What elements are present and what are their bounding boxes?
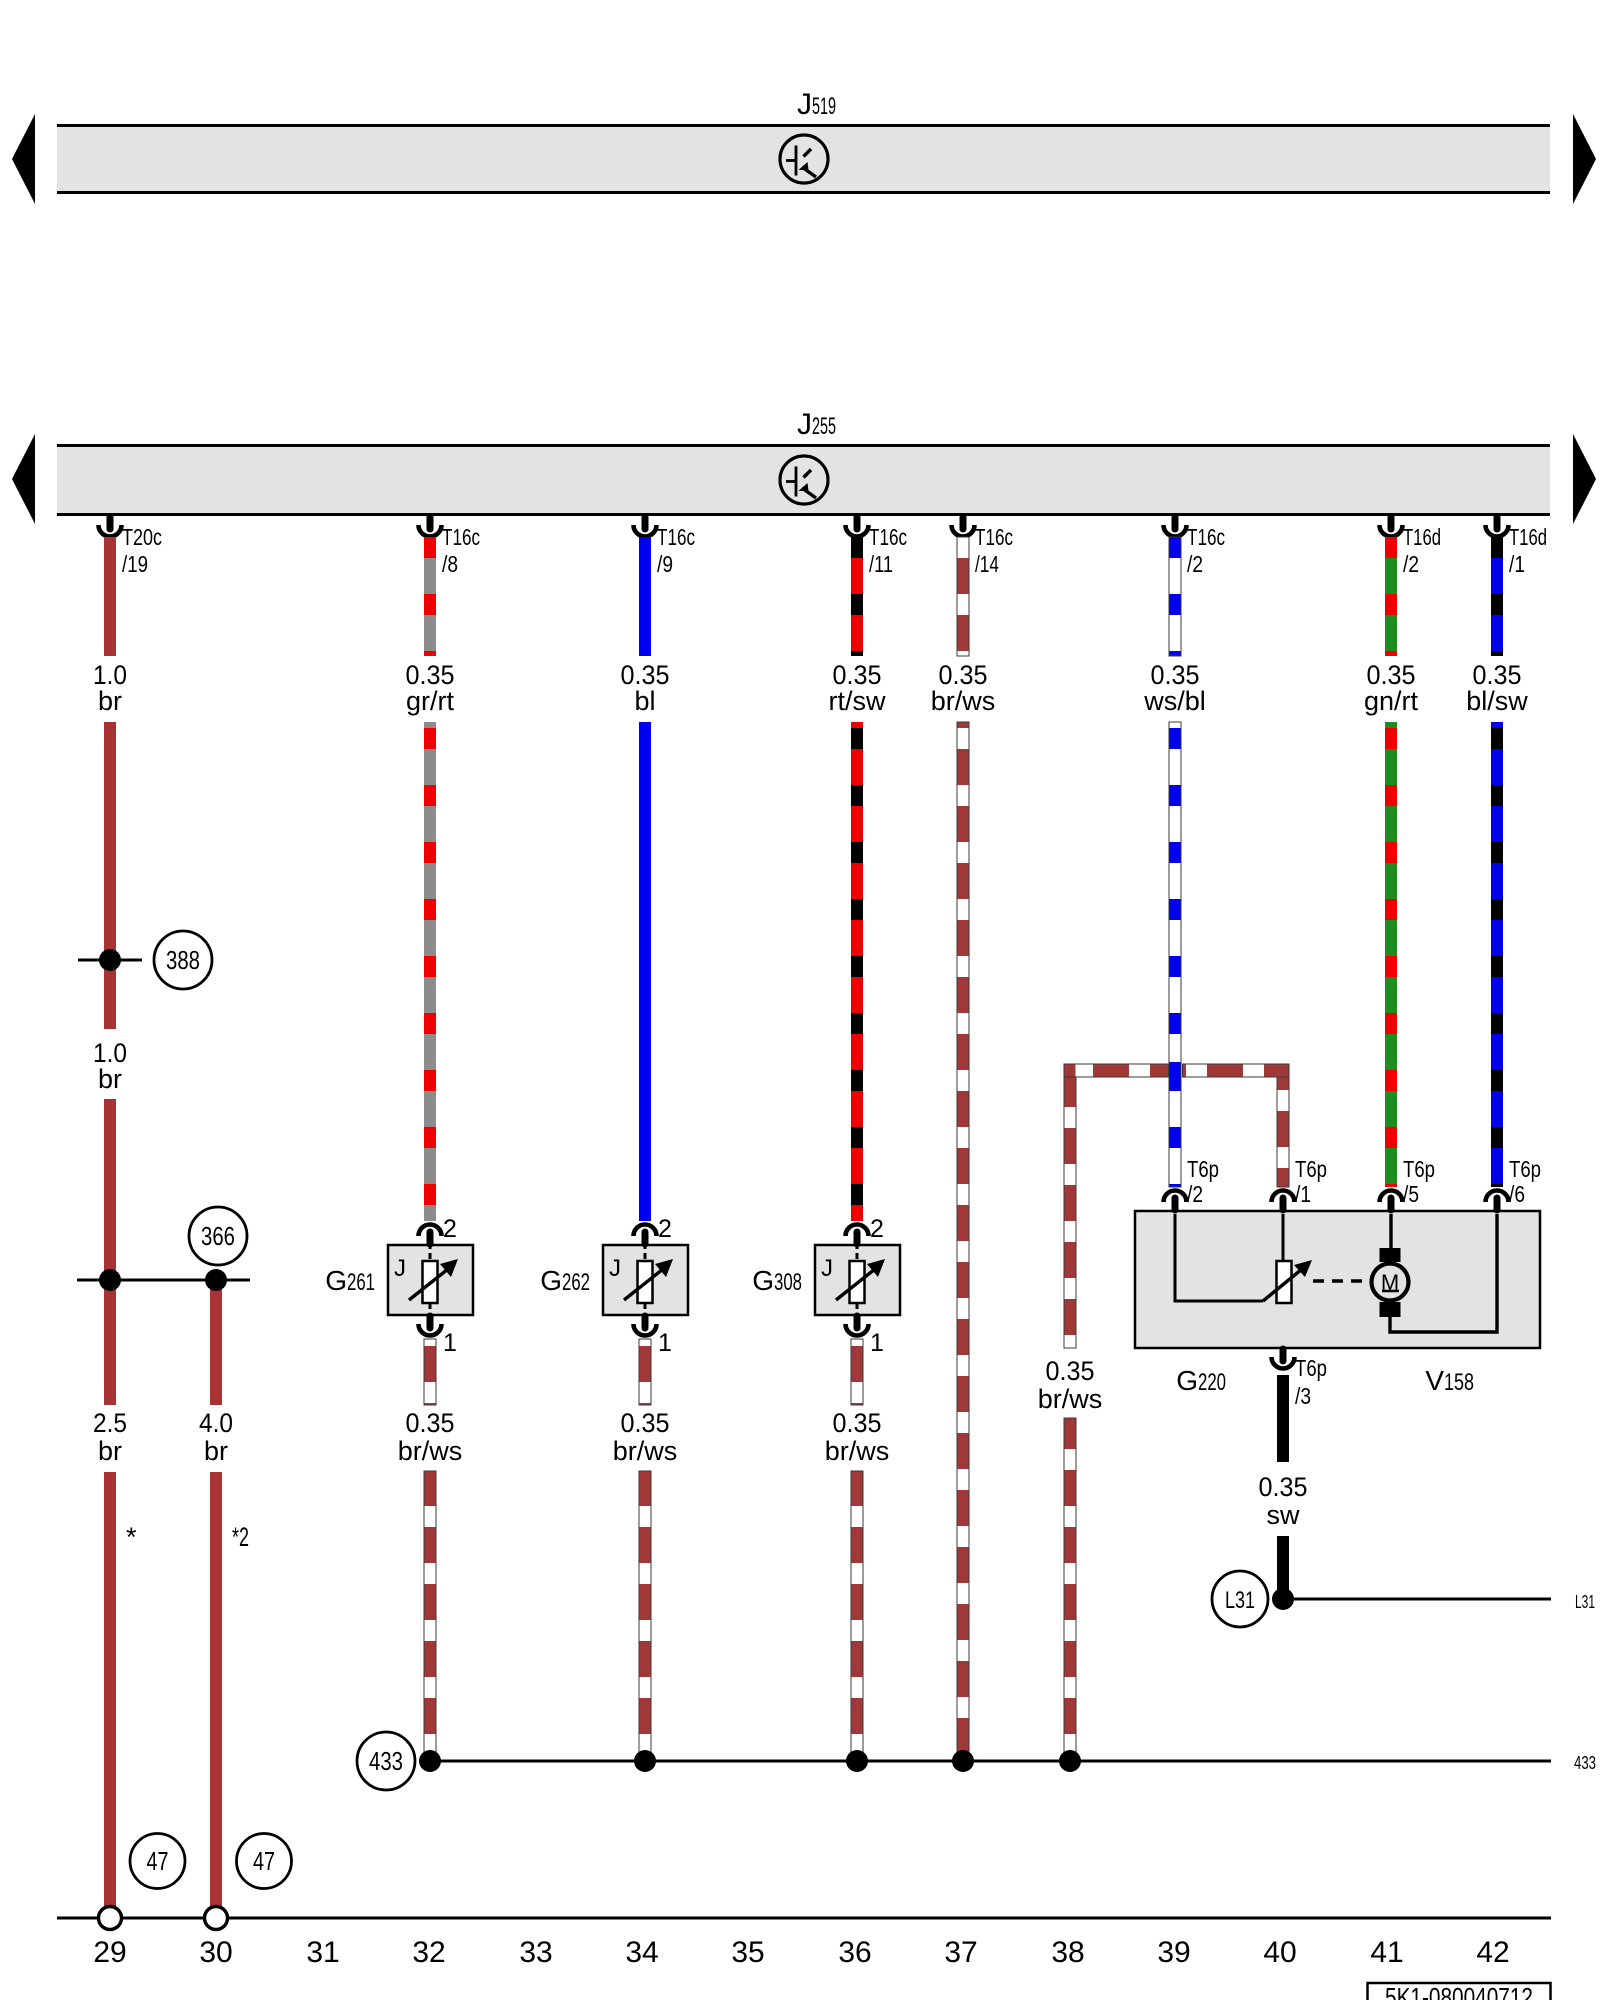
- svg-text:42: 42: [1476, 1936, 1509, 1969]
- wire ws/bl blue dash at crossing: [1170, 1062, 1181, 1082]
- G220 internal lead from pin 2: [1175, 1214, 1263, 1301]
- svg-text:158: 158: [1444, 1369, 1474, 1396]
- wire bl (top segment): [639, 537, 651, 656]
- svg-text:T16c: T16c: [1187, 524, 1225, 550]
- svg-text:262: 262: [562, 1269, 590, 1296]
- wire br/ws G308 to node 433: [851, 1471, 863, 1761]
- svg-text:G: G: [325, 1265, 347, 1296]
- V158 motor brush top: [1380, 1248, 1401, 1262]
- svg-text:31: 31: [306, 1936, 339, 1969]
- connector T16c/9 at J255: [642, 517, 649, 529]
- wire br 2.5 (segment to ground 29): [104, 1472, 116, 1907]
- wire bl/sw (top segment): [1491, 537, 1503, 656]
- svg-text:/19: /19: [122, 551, 148, 577]
- G308 internal dashed lead: [856, 1243, 859, 1261]
- svg-text:T16c: T16c: [975, 524, 1013, 550]
- G262 pin 2 connector: [642, 1232, 649, 1244]
- sender G261 box: [388, 1245, 473, 1315]
- svg-text:G: G: [540, 1265, 562, 1296]
- wire br/ws bent: drop to T6p/1: [1277, 1077, 1289, 1187]
- svg-text:br/ws: br/ws: [1038, 1384, 1103, 1414]
- sender G308 box: [815, 1245, 900, 1315]
- svg-text:T16c: T16c: [657, 524, 695, 550]
- node 433 circle label: [357, 1732, 415, 1790]
- svg-text:0.35: 0.35: [1046, 1356, 1095, 1386]
- V158 motor brush bottom: [1380, 1302, 1401, 1317]
- wire gn/rt (segment to T6p/5): [1385, 722, 1397, 1187]
- wire br/ws (long segment to node 433): [957, 722, 969, 1761]
- wire ws/bl (segment to T6p/2): [1169, 722, 1181, 1187]
- svg-text:gr/rt: gr/rt: [406, 686, 455, 716]
- svg-text:40: 40: [1263, 1936, 1296, 1969]
- svg-text:J: J: [797, 88, 812, 121]
- svg-text:/5: /5: [1403, 1181, 1419, 1207]
- G262 variable resistor: [638, 1261, 653, 1303]
- node 433 junction dot at x=1070: [1059, 1750, 1081, 1772]
- V158 motor lead from T6p/5: [1389, 1214, 1392, 1250]
- svg-text:br: br: [98, 1436, 122, 1466]
- J255 internal connection symbol: [780, 456, 828, 504]
- svg-text:/1: /1: [1295, 1181, 1311, 1207]
- wire gr/rt (segment to sender): [424, 722, 436, 1221]
- connector T6p/2: [1172, 1198, 1179, 1210]
- svg-text:*2: *2: [232, 1522, 249, 1552]
- wire br/ws G261 to node 433: [424, 1471, 436, 1761]
- wire rt/sw (segment to sender): [851, 722, 863, 1221]
- svg-text:/2: /2: [1187, 1181, 1203, 1207]
- svg-text:35: 35: [731, 1936, 764, 1969]
- J255 bus bar: [57, 444, 1550, 514]
- connector T16c/8 at J255: [427, 517, 434, 529]
- svg-text:/2: /2: [1187, 551, 1203, 577]
- connector T6p/1: [1280, 1198, 1287, 1210]
- node 433 junction dot at x=645: [634, 1750, 656, 1772]
- svg-text:519: 519: [812, 93, 836, 120]
- wire ws/bl (top segment): [1169, 537, 1181, 656]
- svg-text:gn/rt: gn/rt: [1364, 686, 1419, 716]
- wire bl (segment to sender): [639, 722, 651, 1221]
- svg-text:rt/sw: rt/sw: [829, 686, 886, 716]
- svg-text:T16c: T16c: [869, 524, 907, 550]
- svg-text:bl/sw: bl/sw: [1466, 686, 1528, 716]
- node 433 connection line: [430, 1760, 1551, 1763]
- svg-text:2.5: 2.5: [93, 1408, 127, 1438]
- G308 pin 1 connector: [854, 1316, 861, 1328]
- wire rt/sw (top segment): [851, 537, 863, 656]
- L31 circle label: [1212, 1571, 1268, 1627]
- wire br/ws bent: vertical at column 38: [1064, 1077, 1076, 1348]
- svg-text:T6p: T6p: [1187, 1156, 1219, 1182]
- G262 internal dashed lead: [644, 1243, 647, 1261]
- node 366 junction dot col29: [99, 1269, 121, 1291]
- svg-text:38: 38: [1051, 1936, 1084, 1969]
- svg-text:br: br: [204, 1436, 228, 1466]
- svg-text:388: 388: [166, 945, 200, 975]
- svg-text:T16d: T16d: [1403, 524, 1441, 550]
- svg-text:41: 41: [1370, 1936, 1403, 1969]
- connector T16c/2 at J255: [1172, 517, 1179, 529]
- G220 potentiometer: [1277, 1261, 1292, 1303]
- L31 connection line: [1283, 1598, 1551, 1601]
- svg-text:T6p: T6p: [1509, 1156, 1541, 1182]
- sender G262 box: [603, 1245, 688, 1315]
- svg-text:39: 39: [1157, 1936, 1190, 1969]
- svg-text:T6p: T6p: [1403, 1156, 1435, 1182]
- G220 internal lead from pin 1: [1282, 1214, 1285, 1261]
- svg-text:J: J: [394, 1255, 406, 1282]
- connector T6p/3: [1280, 1349, 1287, 1361]
- svg-text:br/ws: br/ws: [825, 1436, 890, 1466]
- svg-text:0.35: 0.35: [1259, 1472, 1308, 1502]
- connector T16c/11 at J255: [854, 517, 861, 529]
- svg-text:47: 47: [147, 1846, 169, 1876]
- svg-text:2: 2: [443, 1215, 457, 1243]
- svg-text:sw: sw: [1267, 1500, 1301, 1530]
- svg-text:/2: /2: [1403, 551, 1419, 577]
- svg-text:T20c: T20c: [122, 524, 162, 550]
- svg-text:G: G: [1176, 1365, 1198, 1396]
- svg-text:J: J: [797, 408, 812, 441]
- svg-text:1: 1: [658, 1329, 672, 1357]
- G220/V158 component box: [1135, 1211, 1540, 1348]
- svg-text:30: 30: [199, 1936, 232, 1969]
- svg-text:V: V: [1425, 1365, 1444, 1396]
- drawing number box: [1368, 1983, 1551, 2000]
- connector T6p/6: [1494, 1198, 1501, 1210]
- node 388 tick line: [78, 959, 142, 962]
- node 433 junction dot at x=963: [952, 1750, 974, 1772]
- wire br/ws below G261: [424, 1339, 436, 1405]
- wire br/ws bent: corner blocks: [1065, 1065, 1076, 1077]
- wire br/ws bent: horizontal run right part: [1183, 1064, 1290, 1077]
- ground designation circle 47 (col30): [237, 1834, 292, 1889]
- svg-text:/9: /9: [657, 551, 673, 577]
- V158 motor body: [1372, 1264, 1409, 1301]
- svg-text:/1: /1: [1509, 551, 1525, 577]
- wire br/ws bent: horizontal run left part: [1064, 1064, 1169, 1077]
- connector T6p/5: [1388, 1198, 1395, 1210]
- svg-text:2: 2: [658, 1215, 672, 1243]
- svg-text:433: 433: [369, 1746, 403, 1776]
- svg-text:br: br: [98, 686, 122, 716]
- wire br (segment to node 388): [104, 722, 116, 1029]
- wire br 4.0 (segment to ground 30): [210, 1472, 222, 1907]
- svg-text:433: 433: [1574, 1753, 1596, 1773]
- G262 pin 1 connector: [642, 1316, 649, 1328]
- J255 right continuation arrow: [1573, 434, 1596, 524]
- node 388 junction dot: [99, 949, 121, 971]
- svg-text:G: G: [752, 1265, 774, 1296]
- svg-text:/14: /14: [975, 551, 999, 577]
- svg-text:36: 36: [838, 1936, 871, 1969]
- G261 variable resistor: [423, 1261, 438, 1303]
- J519 internal connection symbol: [780, 135, 828, 183]
- J519 right continuation arrow: [1573, 114, 1596, 204]
- J255 left continuation arrow: [12, 434, 35, 524]
- mechanical coupling dashed link: [1313, 1279, 1369, 1283]
- node 366 connection line: [77, 1279, 250, 1282]
- wire br/ws col38 (segment to node 433): [1064, 1418, 1076, 1761]
- svg-text:J: J: [609, 1255, 621, 1282]
- svg-text:br/ws: br/ws: [613, 1436, 678, 1466]
- svg-text:/8: /8: [442, 551, 458, 577]
- svg-text:308: 308: [774, 1269, 802, 1296]
- connector T16d/1 at J255: [1494, 517, 1501, 529]
- svg-text:br/ws: br/ws: [931, 686, 996, 716]
- G308 pin 2 connector: [854, 1232, 861, 1244]
- svg-text:/3: /3: [1295, 1383, 1311, 1409]
- node 366 circle label: [189, 1207, 247, 1265]
- L31 junction dot: [1272, 1588, 1294, 1610]
- ground designation circle 47 (col29): [130, 1834, 185, 1889]
- svg-text:T6p: T6p: [1295, 1156, 1327, 1182]
- wire gn/rt (top segment): [1385, 537, 1397, 656]
- ground terminal col29: [99, 1907, 122, 1930]
- wire gr/rt (top segment): [424, 537, 436, 656]
- svg-text:255: 255: [812, 413, 836, 440]
- connector T16d/2 at J255: [1388, 517, 1395, 529]
- svg-text:bl: bl: [634, 686, 655, 716]
- wire br/ws below G308: [851, 1339, 863, 1405]
- V158 motor lead to T6p/6: [1390, 1214, 1497, 1332]
- svg-text:1: 1: [870, 1329, 884, 1357]
- svg-text:0.35: 0.35: [406, 1408, 455, 1438]
- svg-text:32: 32: [412, 1936, 445, 1969]
- node 366 junction dot col30: [205, 1269, 227, 1291]
- connector T16c/14 at J255: [960, 517, 967, 529]
- svg-text:220: 220: [1198, 1369, 1226, 1396]
- svg-text:4.0: 4.0: [199, 1408, 233, 1438]
- svg-text:5K1-080040712: 5K1-080040712: [1385, 1982, 1533, 2000]
- svg-text:34: 34: [625, 1936, 658, 1969]
- svg-text:ws/bl: ws/bl: [1143, 686, 1206, 716]
- svg-text:T6p: T6p: [1295, 1355, 1327, 1381]
- wire br/ws from T16c/14 (top segment): [957, 537, 969, 656]
- svg-text:br: br: [98, 1064, 122, 1094]
- svg-text:261: 261: [347, 1269, 375, 1296]
- wire sw 0.35 from T6p/3: [1277, 1375, 1289, 1462]
- connector T20c/19 at J255: [107, 517, 114, 529]
- svg-text:47: 47: [253, 1846, 275, 1876]
- G308 variable resistor: [850, 1261, 865, 1303]
- svg-text:0.35: 0.35: [621, 1408, 670, 1438]
- svg-text:29: 29: [93, 1936, 126, 1969]
- node 433 junction dot at x=430: [419, 1750, 441, 1772]
- svg-text:/11: /11: [869, 551, 893, 577]
- svg-text:1: 1: [443, 1329, 457, 1357]
- svg-text:*: *: [126, 1522, 137, 1552]
- svg-text:br/ws: br/ws: [398, 1436, 463, 1466]
- svg-text:0.35: 0.35: [833, 1408, 882, 1438]
- svg-text:L31: L31: [1225, 1587, 1255, 1614]
- svg-text:33: 33: [519, 1936, 552, 1969]
- svg-text:J: J: [821, 1255, 833, 1282]
- wire br (segment node 388 to node 366): [104, 1099, 116, 1405]
- wire br 1.0 from T20c/19 (top segment): [104, 537, 116, 656]
- wire br/ws below G262: [639, 1339, 651, 1405]
- svg-text:T16d: T16d: [1509, 524, 1547, 550]
- svg-text:2: 2: [870, 1215, 884, 1243]
- J519 bus bar: [57, 124, 1550, 194]
- wire br 4.0 from node 366: [210, 1280, 222, 1405]
- G261 internal dashed lead: [429, 1243, 432, 1261]
- wire bl/sw (segment to T6p/6): [1491, 722, 1503, 1187]
- wire br/ws G262 to node 433: [639, 1471, 651, 1761]
- node 433 junction dot at x=857: [846, 1750, 868, 1772]
- bottom reference base line: [57, 1917, 1551, 1920]
- svg-text:T16c: T16c: [442, 524, 480, 550]
- node 388 circle label: [154, 931, 212, 989]
- svg-text:/6: /6: [1509, 1181, 1525, 1207]
- svg-text:37: 37: [944, 1936, 977, 1969]
- ground terminal col30: [205, 1907, 228, 1930]
- wire sw (segment to L31 node): [1277, 1536, 1289, 1594]
- G261 pin 1 connector: [427, 1316, 434, 1328]
- J519 left continuation arrow: [12, 114, 35, 204]
- svg-text:366: 366: [201, 1221, 235, 1251]
- G261 pin 2 connector: [427, 1232, 434, 1244]
- svg-text:L31: L31: [1575, 1592, 1595, 1612]
